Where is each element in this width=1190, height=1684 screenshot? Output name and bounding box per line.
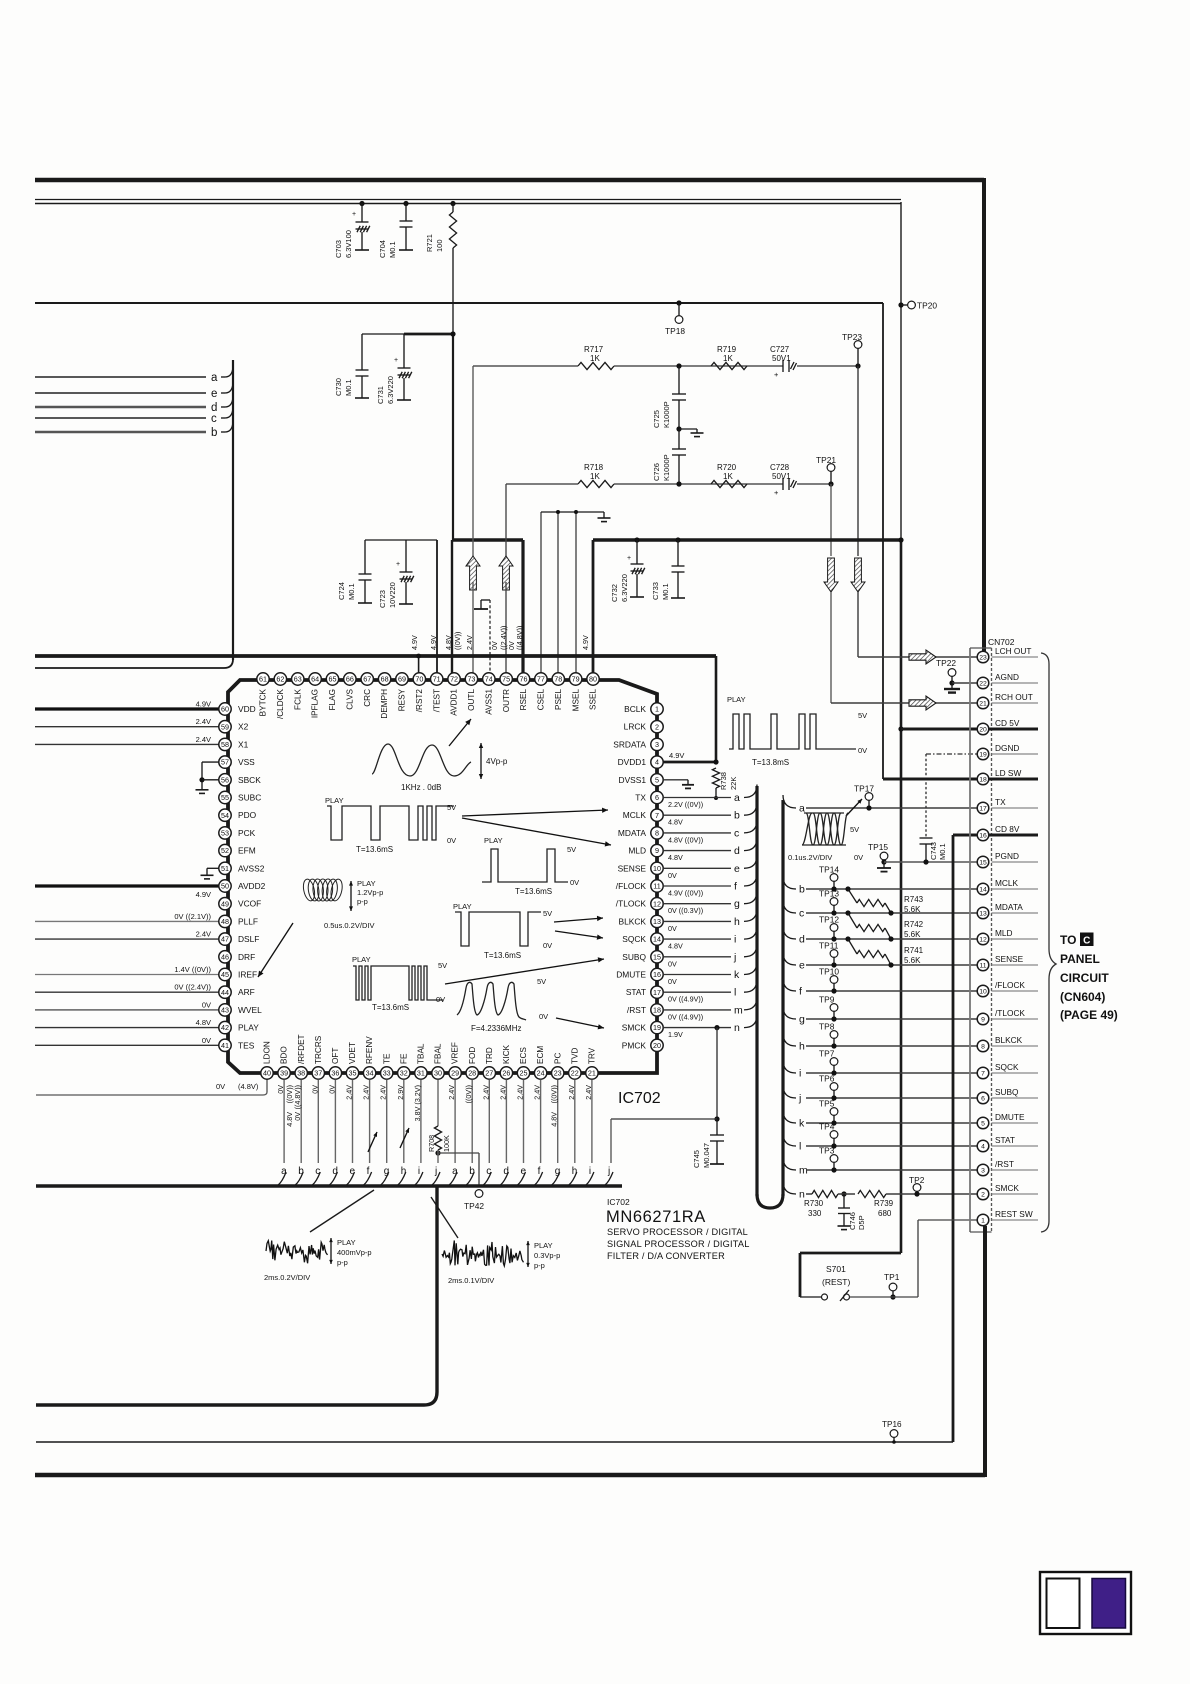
svg-text:4.9V: 4.9V [581, 635, 590, 650]
svg-text:TP42: TP42 [464, 1201, 484, 1211]
wire left pin48 [35, 920, 219, 922]
wire IC pin27 down [488, 1080, 490, 1164]
svg-text:4.9V: 4.9V [429, 635, 438, 650]
svg-text:IC702: IC702 [618, 1090, 661, 1107]
wire IC pin21 down [591, 1080, 593, 1164]
capacitor C746 D5P [841, 1191, 846, 1196]
svg-text:R738: R738 [719, 772, 728, 790]
connector pin 19 DGND [992, 753, 1039, 755]
svg-text:43: 43 [221, 1006, 229, 1015]
pin 45 IREF [219, 968, 231, 980]
diagonal pointer 1 [310, 1190, 374, 1232]
svg-text:5: 5 [981, 1121, 985, 1128]
svg-text:MLD: MLD [628, 846, 646, 856]
pin 67 CRC [361, 673, 373, 685]
wire line B with corner to hook bus [35, 659, 233, 668]
svg-text:0V: 0V [436, 995, 445, 1004]
pin 55 SUBC [219, 791, 231, 803]
svg-text:DVDD1: DVDD1 [618, 757, 647, 767]
svg-text:53: 53 [221, 829, 229, 838]
pin 20 PMCK [651, 1039, 663, 1051]
svg-text:/RST2: /RST2 [415, 689, 424, 713]
connector pin 15 PGND [992, 861, 1039, 863]
svg-text:7: 7 [981, 1071, 985, 1078]
pin 79 MSEL [569, 673, 581, 685]
svg-text:h: h [401, 1166, 407, 1177]
svg-text:j: j [434, 1166, 437, 1177]
wire row a to CN702 pin17 [783, 795, 796, 808]
capacitor C727 50V1 [782, 360, 784, 372]
pin 43 WVEL [219, 1004, 231, 1016]
svg-text:0V: 0V [539, 1012, 548, 1021]
pin 59 X2 [219, 721, 231, 733]
svg-text:45: 45 [221, 970, 229, 979]
svg-text:p-p: p-p [337, 1258, 348, 1267]
resistor R717 1K [578, 362, 614, 369]
svg-text:2ms.0.2V/DIV: 2ms.0.2V/DIV [264, 1273, 310, 1282]
svg-text:56: 56 [221, 775, 229, 784]
svg-text:TP8: TP8 [819, 1022, 835, 1032]
svg-text:VCOF: VCOF [238, 899, 261, 909]
svg-text:D5P: D5P [857, 1215, 866, 1230]
waveform noise 0.3V [442, 1241, 524, 1266]
svg-text:K1000P: K1000P [662, 401, 671, 428]
svg-text:29: 29 [451, 1069, 459, 1078]
svg-text:T=13.6mS: T=13.6mS [356, 845, 393, 854]
wire row m to CN702 pin3 [783, 1157, 796, 1170]
wire DGND row [926, 753, 977, 755]
connector pin 17 TX [992, 807, 1039, 809]
pin 60 VDD [219, 703, 231, 715]
wire IC pin34 down [369, 1080, 371, 1164]
svg-text:0V: 0V [202, 1000, 211, 1009]
svg-text:2.4V: 2.4V [584, 1085, 593, 1100]
svg-text:ECS: ECS [519, 1047, 528, 1064]
svg-text:4.8V: 4.8V [550, 1112, 559, 1127]
pin 52 EFM [219, 844, 231, 856]
svg-text:R717: R717 [584, 345, 604, 354]
svg-text:C725: C725 [652, 410, 661, 428]
connector pin 3 /RST [992, 1169, 1039, 1171]
wire right border vertical to LCH OUT [982, 178, 986, 654]
svg-text:4.9V ((0V)): 4.9V ((0V)) [668, 889, 703, 898]
wire CD 8V vertical down [952, 835, 955, 1442]
svg-text:C745: C745 [692, 1150, 701, 1168]
svg-text:59: 59 [221, 722, 229, 731]
svg-text:2: 2 [655, 722, 659, 731]
pin 68 DEMPH [378, 673, 390, 685]
svg-text:2.4V: 2.4V [196, 930, 211, 939]
arrow to SQCK [555, 931, 603, 938]
svg-text:0V: 0V [202, 1036, 211, 1045]
pin 22 TVD [569, 1067, 581, 1079]
pin 8 MDATA [651, 827, 663, 839]
svg-text:p-p: p-p [534, 1261, 545, 1270]
svg-text:14: 14 [653, 935, 661, 944]
svg-text:RFENV: RFENV [365, 1036, 374, 1064]
wire row f to CN702 pin10 [783, 978, 796, 991]
wire line y=303 to LD SW [35, 302, 883, 304]
svg-text:EFM: EFM [238, 846, 256, 856]
svg-text:VDET: VDET [348, 1042, 357, 1064]
svg-text:+: + [627, 555, 631, 562]
svg-text:2.4V: 2.4V [379, 1085, 388, 1100]
svg-text:SMCK: SMCK [622, 1023, 647, 1033]
svg-text:5V: 5V [543, 909, 552, 918]
svg-text:R721: R721 [425, 234, 434, 252]
svg-text:f: f [799, 986, 802, 998]
svg-text:((4.8V)): ((4.8V)) [515, 626, 524, 650]
wire row j to CN702 pin6 [783, 1085, 796, 1098]
svg-text:0V: 0V [310, 1085, 319, 1094]
wire left pin43 [35, 1009, 219, 1011]
connector pin 11 SENSE [992, 964, 1039, 966]
svg-text:7: 7 [655, 811, 659, 820]
svg-text:n: n [734, 1022, 740, 1034]
svg-text:((4.8V)): ((4.8V)) [293, 1085, 302, 1109]
pin 29 VREF [449, 1067, 461, 1079]
svg-text:p-p: p-p [357, 897, 368, 906]
svg-text:X2: X2 [238, 722, 249, 732]
wire IC pin19 to letter n [663, 1027, 731, 1029]
svg-text:2.4V: 2.4V [465, 635, 474, 650]
svg-text:PLAY: PLAY [453, 902, 472, 911]
svg-text:44: 44 [221, 988, 229, 997]
wire LD SW row [883, 778, 977, 781]
capacitor C745 M0.047 [714, 1025, 719, 1030]
wire double line 5V rail upper [35, 199, 901, 201]
wire bottom thick border [35, 1473, 985, 1478]
svg-text:50V1: 50V1 [772, 354, 791, 363]
wire row l to CN702 pin4 [783, 1133, 796, 1146]
wire left pin50 [35, 884, 219, 887]
svg-text:PANEL: PANEL [1060, 952, 1100, 966]
svg-text:75: 75 [502, 675, 510, 684]
svg-text:74: 74 [485, 675, 493, 684]
connector pin 10 /FLOCK [992, 990, 1039, 992]
connector pin 9 /TLOCK [992, 1018, 1039, 1020]
svg-text:i: i [734, 934, 736, 946]
wire OUTR vertical to pin75 [505, 484, 507, 556]
svg-text:IREF: IREF [238, 970, 257, 980]
wire IC pin12 to letter g [663, 903, 731, 905]
pin 77 CSEL [535, 673, 547, 685]
svg-text:57: 57 [221, 758, 229, 767]
svg-text:36: 36 [331, 1069, 339, 1078]
wire row b to CN702 pin14 [783, 876, 796, 889]
svg-text:33: 33 [383, 1069, 391, 1078]
svg-text:0V: 0V [668, 977, 677, 986]
svg-text:h: h [734, 916, 740, 928]
wire IC pin24 down [540, 1080, 542, 1164]
svg-text:SENSE: SENSE [618, 863, 647, 873]
svg-text:12: 12 [653, 899, 661, 908]
pin 66 CLVS [344, 673, 356, 685]
pin 39 BDO [278, 1067, 290, 1079]
svg-text:0V: 0V [216, 1082, 225, 1091]
wire REST SW vertical [983, 1226, 987, 1477]
svg-text:2.4V: 2.4V [196, 717, 211, 726]
svg-text:T=13.8mS: T=13.8mS [752, 758, 789, 767]
pin 53 PCK [219, 827, 231, 839]
svg-text:5.6K: 5.6K [904, 930, 921, 939]
svg-text:AVSS1: AVSS1 [484, 689, 493, 715]
svg-text:IPFLAG: IPFLAG [311, 689, 320, 718]
pin 13 BLKCK [651, 915, 663, 927]
svg-text:10V220: 10V220 [388, 582, 397, 608]
svg-text:C731: C731 [376, 386, 385, 404]
svg-text:PLAY: PLAY [325, 796, 344, 805]
svg-text:BLKCK: BLKCK [995, 1035, 1023, 1045]
svg-text:24: 24 [537, 1069, 545, 1078]
svg-text:MCLK: MCLK [623, 810, 647, 820]
svg-text:g: g [734, 898, 740, 910]
pin 71 /TEST [431, 673, 443, 685]
resistor R721 100 [450, 201, 455, 206]
svg-text:17: 17 [979, 806, 987, 813]
svg-text:SQCK: SQCK [622, 934, 646, 944]
svg-text:R720: R720 [717, 463, 737, 472]
pin 2 LRCK [651, 721, 663, 733]
svg-text:TP15: TP15 [868, 842, 888, 852]
wire double line 5V rail lower [35, 203, 901, 205]
svg-text:a: a [211, 372, 218, 384]
svg-text:M0.1: M0.1 [347, 583, 356, 600]
svg-text:4.8V: 4.8V [668, 942, 683, 951]
svg-text:TX: TX [635, 793, 646, 803]
wire IC pin14 to letter i [663, 938, 731, 940]
svg-text:SBCK: SBCK [238, 775, 261, 785]
svg-text:0V ((2.4V)): 0V ((2.4V)) [174, 983, 211, 992]
connector pin 5 DMUTE [992, 1122, 1039, 1124]
pin 75 OUTR [500, 673, 512, 685]
svg-text:22: 22 [979, 681, 987, 688]
svg-text:32: 32 [400, 1069, 408, 1078]
wire IC pin33 down [386, 1080, 388, 1164]
svg-text:i: i [589, 1166, 591, 1177]
svg-text:l: l [734, 987, 736, 999]
connector pin 23 LCH OUT [992, 656, 1039, 658]
svg-text:j: j [607, 1166, 610, 1177]
capacitor C731 [403, 334, 405, 368]
svg-text:b: b [211, 427, 217, 439]
svg-text:TP4: TP4 [819, 1122, 835, 1132]
pin 33 TE [381, 1067, 393, 1079]
svg-text:5.6K: 5.6K [904, 956, 921, 965]
wire C730/C731 branch [362, 333, 404, 335]
svg-text:69: 69 [398, 675, 406, 684]
svg-text:REST SW: REST SW [995, 1209, 1033, 1219]
svg-text:68: 68 [381, 675, 389, 684]
svg-text:+: + [774, 370, 779, 379]
wire LDON pin40 to left [266, 1079, 268, 1092]
svg-text:c: c [734, 827, 739, 839]
pin 27 TRD [483, 1067, 495, 1079]
svg-text:4.8V: 4.8V [668, 853, 683, 862]
svg-text:28: 28 [468, 1069, 476, 1078]
pin 17 STAT [651, 986, 663, 998]
wire SSEL pin80 to 5V bus [592, 540, 595, 673]
svg-text:58: 58 [221, 740, 229, 749]
svg-text:22K: 22K [729, 777, 738, 790]
svg-text:OUTR: OUTR [502, 689, 511, 712]
svg-text:5V: 5V [537, 977, 546, 986]
wire RCH OUT net from TP21 [830, 484, 832, 556]
svg-text:SRDATA: SRDATA [613, 739, 646, 749]
wire row e to CN702 pin11 [783, 952, 796, 965]
wire signal b from left [35, 431, 206, 433]
svg-text:1.9V: 1.9V [668, 1030, 683, 1039]
svg-text:b: b [734, 810, 740, 822]
svg-text:80: 80 [589, 675, 597, 684]
svg-text:MCLK: MCLK [995, 878, 1019, 888]
svg-text:TRV: TRV [588, 1047, 597, 1064]
svg-text:4.8V ((0V)): 4.8V ((0V)) [668, 835, 703, 844]
pin 41 TES [219, 1039, 231, 1051]
svg-text:TP22: TP22 [936, 658, 956, 668]
arrow at TP17 [846, 799, 862, 816]
svg-text:/TEST: /TEST [432, 689, 441, 712]
pin 47 DSLF [219, 933, 231, 945]
svg-text:CRC: CRC [363, 689, 372, 707]
resistor R738 22K pullup [712, 768, 719, 788]
svg-text:42: 42 [221, 1023, 229, 1032]
svg-text:5V: 5V [567, 845, 576, 854]
svg-text:PGND: PGND [995, 851, 1019, 861]
pin 63 FCLK [292, 673, 304, 685]
svg-text:100K: 100K [442, 1135, 451, 1152]
wire IC pin35 down [352, 1080, 354, 1164]
svg-text:(CN604): (CN604) [1060, 990, 1105, 1004]
arrow to MCLK [462, 810, 608, 816]
svg-text:4Vp-p: 4Vp-p [486, 757, 508, 766]
svg-text:31: 31 [417, 1069, 425, 1078]
svg-text:C727: C727 [770, 345, 790, 354]
svg-text:K1000P: K1000P [662, 454, 671, 481]
svg-text:6: 6 [981, 1096, 985, 1103]
svg-text:0.1us.2V/DIV: 0.1us.2V/DIV [788, 853, 832, 862]
arrow sine to OUTL [449, 719, 471, 746]
pin 69 RESY [396, 673, 408, 685]
wire C723/C724 branch line [365, 539, 437, 541]
wire LCH OUT net from TP23 [857, 366, 859, 556]
svg-text:BYTCK: BYTCK [259, 688, 268, 716]
svg-text:DMUTE: DMUTE [616, 970, 646, 980]
capacitor C725 K1000P [676, 363, 681, 368]
svg-text:BDO: BDO [280, 1046, 289, 1064]
svg-text:PCK: PCK [238, 828, 256, 838]
svg-text:8: 8 [655, 829, 659, 838]
svg-text:(PAGE 49): (PAGE 49) [1060, 1008, 1118, 1022]
svg-text:(4.8V): (4.8V) [238, 1082, 259, 1091]
svg-text:d: d [734, 845, 740, 857]
svg-text:6: 6 [655, 793, 659, 802]
svg-text:22: 22 [571, 1069, 579, 1078]
wire IC pin26 down [505, 1080, 507, 1164]
svg-text:TP3: TP3 [819, 1146, 835, 1156]
pin 30 FBAL [432, 1067, 444, 1079]
svg-text:2.4V: 2.4V [196, 735, 211, 744]
svg-text:d: d [332, 1166, 338, 1177]
connector pin 6 SUBQ [992, 1097, 1039, 1099]
capacitor C730 [361, 334, 363, 370]
svg-text:TES: TES [238, 1040, 255, 1050]
connector pin 1 REST SW [992, 1219, 1039, 1221]
IC U702 MN66271RA outline [228, 680, 657, 1073]
svg-text:TP23: TP23 [842, 332, 862, 342]
svg-text:79: 79 [572, 675, 580, 684]
resistor R739 680 [858, 1190, 886, 1197]
svg-text:CLVS: CLVS [345, 688, 354, 709]
svg-text:TP16: TP16 [882, 1420, 902, 1429]
wire OUTL vertical to pin73 [472, 366, 474, 556]
pin 24 ECM [534, 1067, 546, 1079]
pin 32 FE [398, 1067, 410, 1079]
svg-text:0V: 0V [327, 1085, 336, 1094]
wire row g to CN702 pin9 [783, 1006, 796, 1019]
svg-text:2: 2 [981, 1192, 985, 1199]
svg-text:DRF: DRF [238, 952, 255, 962]
pin 31 TBAL [415, 1067, 427, 1079]
svg-text:PSEL: PSEL [554, 689, 563, 710]
svg-text:TP14: TP14 [819, 865, 839, 875]
svg-text:AVSS2: AVSS2 [238, 863, 265, 873]
svg-text:/RST: /RST [627, 1005, 646, 1015]
svg-text:j: j [798, 1093, 801, 1105]
svg-text:2ms.0.1V/DIV: 2ms.0.1V/DIV [448, 1276, 494, 1285]
svg-text:3: 3 [655, 740, 659, 749]
capacitor C704 [403, 201, 408, 206]
svg-text:67: 67 [363, 675, 371, 684]
svg-text:BCLK: BCLK [624, 704, 646, 714]
svg-text:FLAG: FLAG [328, 689, 337, 710]
svg-text:100: 100 [435, 239, 444, 252]
svg-text:77: 77 [537, 675, 545, 684]
svg-text:TP5: TP5 [819, 1099, 835, 1109]
svg-text:R743: R743 [904, 895, 924, 904]
svg-text:0.5us.0.2V/DIV: 0.5us.0.2V/DIV [324, 921, 374, 930]
wires CSEL/PSEL/MSEL pins 77-79 to ground [540, 512, 542, 673]
svg-text:0V: 0V [854, 853, 863, 862]
svg-text:TE: TE [382, 1053, 391, 1064]
svg-text:g: g [555, 1166, 561, 1177]
svg-text:23: 23 [554, 1069, 562, 1078]
pin 57 VSS [219, 756, 231, 768]
svg-text:27: 27 [485, 1069, 493, 1078]
svg-text:i: i [799, 1068, 801, 1080]
test point TP20 [898, 302, 903, 307]
wire IC pin36 down [334, 1080, 336, 1164]
wire box right to pin76 [521, 540, 524, 673]
svg-text:+: + [352, 211, 356, 218]
wire 4.9V corner down x=716 to DVDD1 [715, 656, 718, 762]
svg-text:PLAY: PLAY [534, 1241, 553, 1250]
pin 11 /FLOCK [651, 880, 663, 892]
connector pin 2 SMCK [992, 1193, 1039, 1195]
pin 19 SMCK [651, 1021, 663, 1033]
svg-text:FE: FE [399, 1053, 408, 1064]
node loop bus [755, 786, 758, 1196]
pin 35 VDET [346, 1067, 358, 1079]
connector pin 4 STAT [992, 1145, 1039, 1147]
pin 58 X1 [219, 738, 231, 750]
wire row d to CN702 pin12 [783, 926, 796, 939]
svg-text:4.8V: 4.8V [668, 818, 683, 827]
waveform noise 400mV [266, 1241, 328, 1264]
svg-text:SENSE: SENSE [995, 954, 1024, 964]
svg-text:M0.1: M0.1 [661, 583, 670, 600]
wire REST net corner [800, 1252, 901, 1255]
